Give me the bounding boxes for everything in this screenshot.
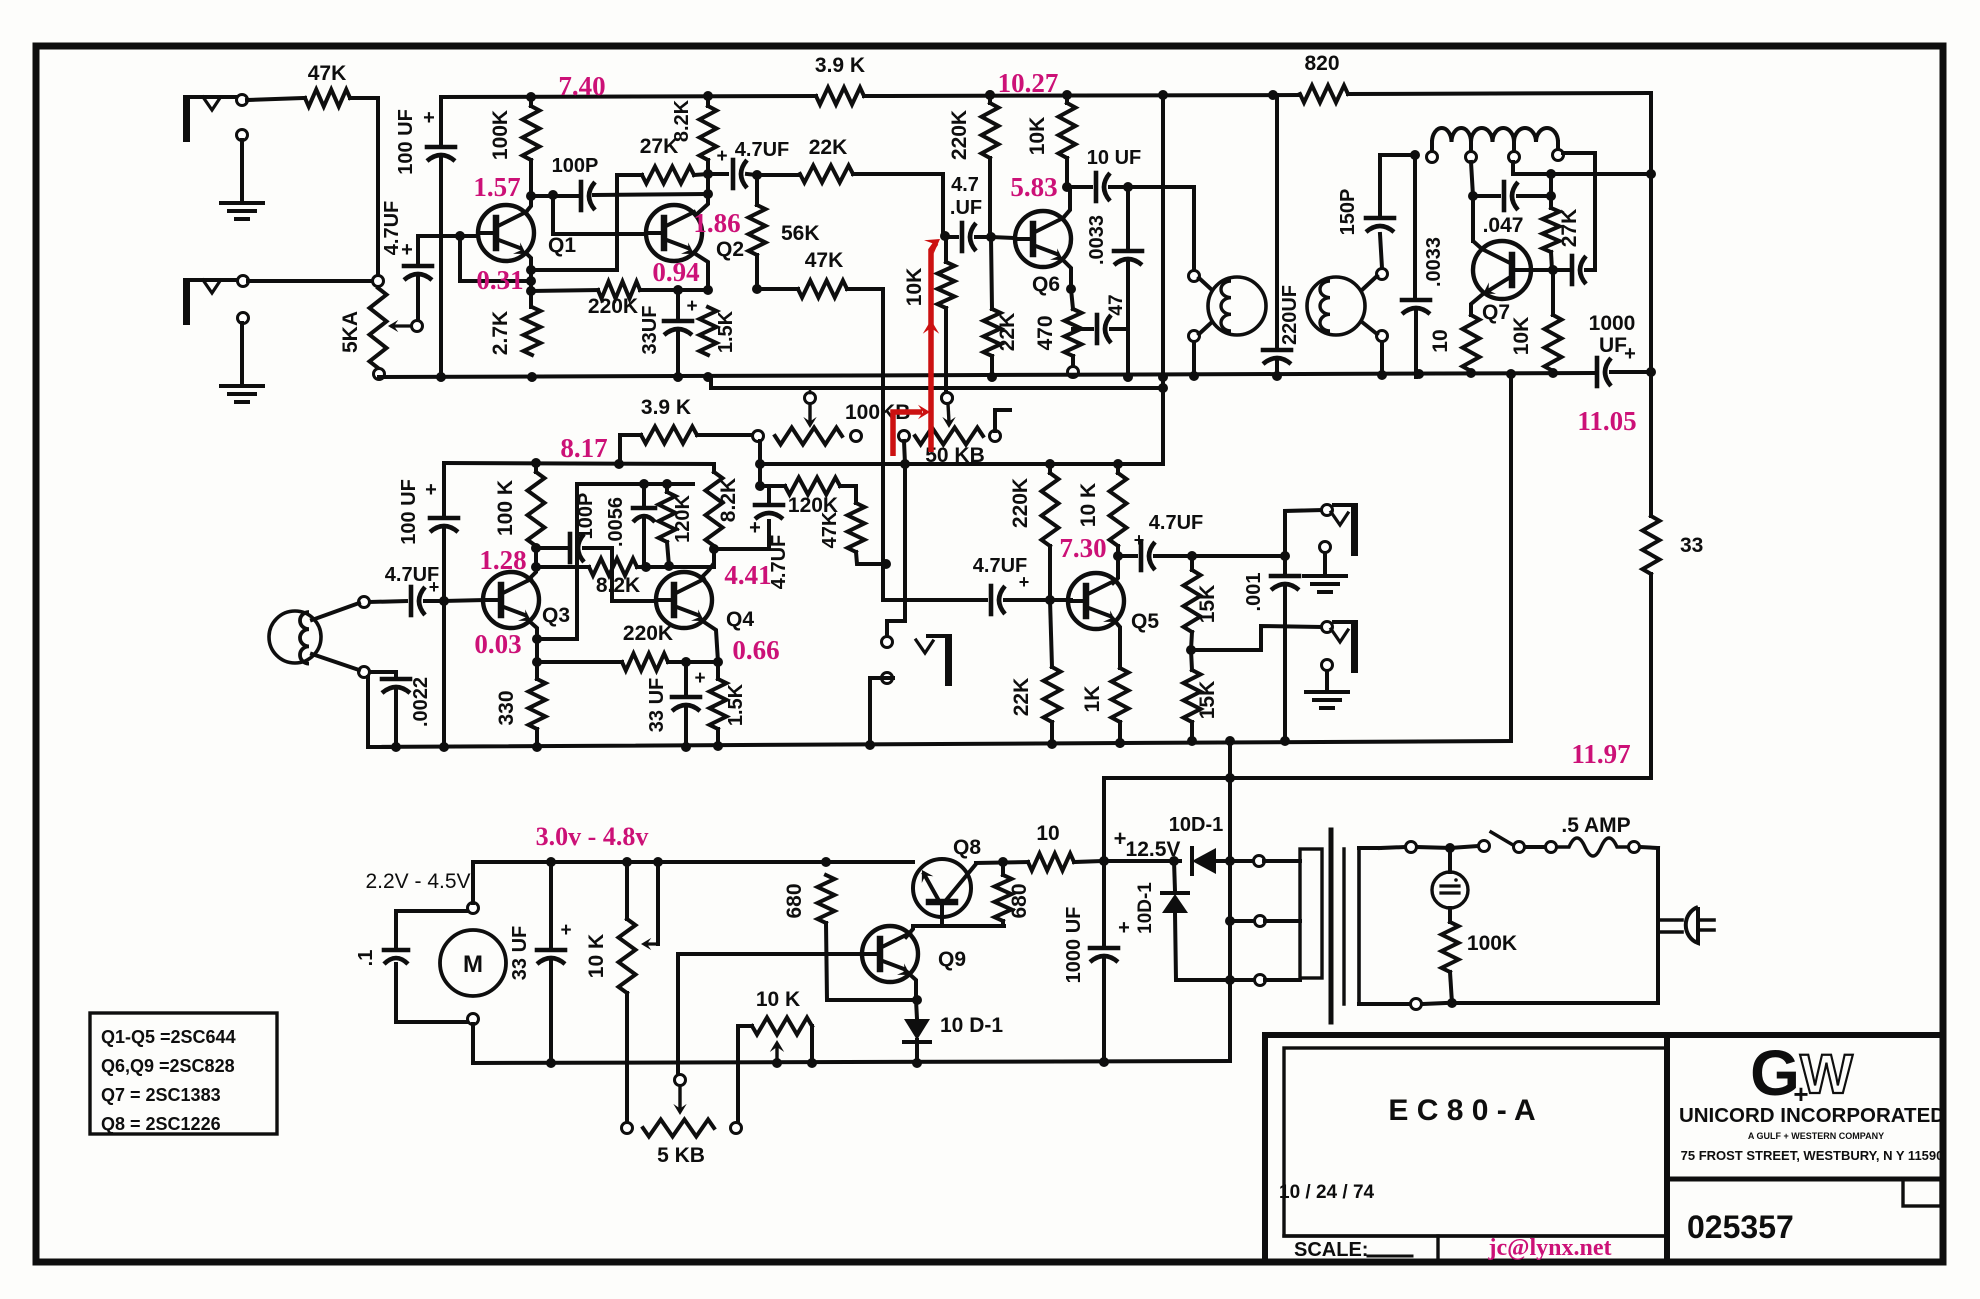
capacitor 4.7UF Q2 out <box>708 139 789 188</box>
svg-text:1.5K: 1.5K <box>725 683 747 726</box>
svg-text:10 K: 10 K <box>1077 483 1100 527</box>
svg-text:75 FROST STREET, WESTBURY, N Y: 75 FROST STREET, WESTBURY, N Y 11590 <box>1681 1148 1944 1163</box>
svg-text:.1: .1 <box>355 950 377 967</box>
svg-text:1.86: 1.86 <box>693 208 740 238</box>
svg-text:100 UF: 100 UF <box>398 479 420 545</box>
svg-text:E C 8 0 - A: E C 8 0 - A <box>1388 1094 1535 1127</box>
title subtitle <box>1748 1131 1884 1141</box>
svg-text:47K: 47K <box>819 511 841 548</box>
wire .001 node up to jack1 <box>1285 510 1321 556</box>
svg-text:Q5: Q5 <box>1131 610 1159 633</box>
svg-text:UNICORD INCORPORATED: UNICORD INCORPORATED <box>1679 1104 1945 1127</box>
resistor 100K power <box>1442 908 1518 1003</box>
wire mic sleeve down <box>368 677 396 747</box>
wire Q7 collector <box>1473 238 1482 249</box>
svg-text:10 / 24 / 74: 10 / 24 / 74 <box>1279 1182 1375 1203</box>
wire 27K feedback loop <box>531 175 642 270</box>
svg-text:Q4: Q4 <box>726 608 754 631</box>
svg-text:0.03: 0.03 <box>474 629 521 659</box>
svg-text:2.7K: 2.7K <box>489 311 512 355</box>
svg-text:150P: 150P <box>1337 189 1359 236</box>
transistor Q1 <box>478 196 576 261</box>
wire T2 tap4 right <box>1563 153 1595 270</box>
svg-text:470: 470 <box>1034 315 1057 350</box>
wire Q8 base row <box>913 924 1004 928</box>
GW logo <box>1750 1037 1853 1109</box>
resistor 470 <box>1034 289 1082 378</box>
svg-text:11.97: 11.97 <box>1571 739 1630 769</box>
svg-text:10 D-1: 10 D-1 <box>940 1014 1003 1037</box>
svg-text:15K: 15K <box>1196 681 1219 720</box>
label 0.66 <box>732 635 779 665</box>
svg-text:Q7: Q7 <box>1482 301 1510 324</box>
wire T2 tap2 down <box>1468 162 1478 241</box>
svg-text:Q3: Q3 <box>542 604 570 627</box>
feedback vertical x577 <box>537 484 577 639</box>
label 4.41 <box>724 560 771 590</box>
red arrow 1 <box>893 405 930 456</box>
svg-text:1.5K: 1.5K <box>715 310 737 353</box>
wire 100KB left to node <box>755 441 765 491</box>
pot 5KB <box>622 1120 742 1168</box>
wire Q7 emitter <box>1471 294 1483 315</box>
resistor 8.2K mid vert <box>706 464 741 546</box>
resistor 120K vert <box>659 484 695 566</box>
svg-text:4.7UF: 4.7UF <box>1149 512 1203 534</box>
svg-text:5.83: 5.83 <box>1010 172 1057 202</box>
svg-text:Q6: Q6 <box>1032 273 1060 296</box>
svg-text:10.27: 10.27 <box>998 68 1059 98</box>
rail3 8.17 <box>444 458 1163 469</box>
capacitor 10UF <box>1067 147 1141 201</box>
title notch <box>1903 1179 1941 1206</box>
wire Q9 emitter <box>906 971 917 1019</box>
capacitor 100UF ch1 <box>395 97 455 376</box>
wire 47K to corner <box>350 98 378 276</box>
capacitor 1000UF power <box>1063 861 1130 1067</box>
wire Q2 collector node <box>697 169 713 214</box>
wire Q3 base <box>444 600 483 601</box>
svg-text:10D-1: 10D-1 <box>1169 814 1223 836</box>
resistor 15K upper <box>1184 556 1220 655</box>
wire 5KB right up <box>738 1026 752 1122</box>
wire x1415 down <box>1413 157 1417 298</box>
label 1.57 <box>473 172 520 202</box>
wire 33 down to 11.97 <box>1104 574 1651 783</box>
label 7.30 <box>1059 533 1106 563</box>
wire 47K-Q5 base feed <box>883 598 986 600</box>
svg-text:10: 10 <box>1429 329 1452 352</box>
label 12.5V <box>1114 826 1181 861</box>
svg-text:A GULF + WESTERN COMPANY: A GULF + WESTERN COMPANY <box>1748 1131 1884 1141</box>
svg-text:7.30: 7.30 <box>1059 533 1106 563</box>
wire to Q1 base <box>418 231 478 241</box>
capacitor 4.7UF ch1 <box>381 201 432 320</box>
wire Q1 emitter <box>526 253 536 307</box>
wire T2 tap3 down <box>1511 162 1515 174</box>
scale strip <box>1284 1236 1667 1261</box>
wire x1163 vertical <box>1158 95 1168 464</box>
svg-text:Q8: Q8 <box>953 836 981 859</box>
svg-text:10: 10 <box>1036 822 1059 845</box>
wire Q8 collector to 10 <box>976 857 1028 867</box>
capacitor 150P <box>1337 155 1394 268</box>
svg-text:Q6,Q9 =2SC828: Q6,Q9 =2SC828 <box>101 1056 235 1076</box>
svg-text:4.41: 4.41 <box>724 560 771 590</box>
svg-text:15K: 15K <box>1196 585 1219 624</box>
wire Q3 collector <box>528 543 541 580</box>
svg-text:0.94: 0.94 <box>652 257 699 287</box>
transistor Q6 <box>1015 211 1071 296</box>
svg-text:33UF: 33UF <box>639 306 661 355</box>
capacitor 4.7UF Q5 in <box>973 555 1071 614</box>
resistor 3.9K top <box>815 54 865 105</box>
svg-text:22K: 22K <box>1010 678 1033 717</box>
capacitor .1 <box>355 950 408 967</box>
transistor Q4 <box>656 572 754 631</box>
svg-text:0.31: 0.31 <box>476 265 523 295</box>
svg-text:22K: 22K <box>809 136 848 159</box>
top supply rail 7.40 <box>441 90 1647 102</box>
resistor 10 Q7 <box>1429 315 1480 371</box>
capacitor .0033 out <box>1402 237 1445 377</box>
pot 10K wiper <box>641 862 658 950</box>
wire Q9 collector <box>906 926 913 937</box>
ground jack2 <box>1306 671 1348 708</box>
neon lamp <box>1432 848 1468 908</box>
transistor table text <box>101 1027 236 1134</box>
wire Q2 emitter <box>694 253 708 290</box>
label 1.86 <box>693 208 740 238</box>
svg-text:5 KB: 5 KB <box>657 1144 705 1167</box>
svg-text:Q9: Q9 <box>938 948 966 971</box>
capacitor 4.7UF Q4 <box>714 486 790 589</box>
transformer secondary terminals <box>1254 856 1266 986</box>
svg-text:5KA: 5KA <box>339 311 362 353</box>
resistor 10K mid (to 50KB) <box>903 231 955 404</box>
resistor 100K Q3 <box>494 463 545 546</box>
wire x1230 down <box>1225 741 1235 1060</box>
resistor 3.9K mid <box>620 396 752 464</box>
pot 5KA <box>339 276 387 380</box>
fuse .5AMP <box>1557 814 1658 856</box>
svg-text:.UF: .UF <box>950 197 982 219</box>
resistor 120K horiz <box>758 478 856 518</box>
resistor 47K mid <box>819 503 891 569</box>
ground below J1 <box>221 140 263 219</box>
wire 11.97 to 12.5V node <box>1102 778 1106 861</box>
svg-text:680: 680 <box>783 883 806 918</box>
resistor 22K <box>757 136 943 236</box>
wire sec terminal 2 <box>1230 919 1253 923</box>
resistor 56K <box>749 175 820 294</box>
ground below J2 <box>221 323 263 402</box>
svg-text:100K: 100K <box>1467 932 1517 955</box>
resistor 10K Q6 <box>1026 95 1076 192</box>
jack J2 (input 2) <box>183 276 249 326</box>
primary loop right <box>1447 848 1658 1008</box>
svg-text:+: + <box>1019 572 1030 592</box>
svg-text:10 K: 10 K <box>585 934 608 978</box>
transistor Q2 <box>646 205 744 261</box>
svg-text:11.05: 11.05 <box>1577 406 1636 436</box>
wire y556 to right <box>1187 551 1290 561</box>
svg-text:4.7UF: 4.7UF <box>768 535 790 589</box>
wire Q7 base <box>1512 265 1558 275</box>
resistor 680 right <box>995 862 1032 926</box>
transistor Q3 <box>483 572 570 628</box>
wire x1511 from y556 <box>1509 374 1513 741</box>
svg-text:0.66: 0.66 <box>732 635 779 665</box>
resistor 22K Q6 <box>984 237 1020 382</box>
svg-text:.0022: .0022 <box>410 677 432 727</box>
svg-text:120K: 120K <box>672 495 694 543</box>
svg-text:100 UF: 100 UF <box>395 109 417 175</box>
power switch <box>1491 832 1557 853</box>
resistor 680 left <box>783 875 835 923</box>
svg-text:4.7: 4.7 <box>951 174 979 196</box>
svg-text:7.40: 7.40 <box>558 71 605 101</box>
resistor 220K Q6 <box>948 90 999 237</box>
resistor 10K Q7 <box>1510 270 1562 371</box>
wire Q5 emitter <box>1113 619 1120 668</box>
svg-text:22K: 22K <box>996 313 1019 352</box>
wire Q5 collector <box>1113 556 1118 583</box>
svg-text:4.7UF: 4.7UF <box>381 201 403 255</box>
motor bypass loop <box>396 911 467 1022</box>
wire Q3 emitter <box>528 620 542 679</box>
resistor 220K Q5 <box>1009 464 1059 600</box>
svg-text:10 UF: 10 UF <box>1087 147 1141 169</box>
svg-text:1.57: 1.57 <box>473 172 520 202</box>
transistor table box <box>90 1013 277 1134</box>
svg-text:+: + <box>716 146 727 167</box>
capacitor .0056 <box>605 484 655 567</box>
svg-text:.5 AMP: .5 AMP <box>1561 814 1630 837</box>
label 5.83 <box>1010 172 1057 202</box>
label 8.17 <box>560 433 607 463</box>
svg-text:+: + <box>686 296 697 317</box>
svg-text:10K: 10K <box>903 268 926 307</box>
svg-text:Q1: Q1 <box>548 234 576 257</box>
svg-text:47: 47 <box>1106 294 1127 315</box>
transformer connector <box>1264 849 1322 980</box>
svg-text:+: + <box>694 668 705 689</box>
wire 15K junction to jack2 <box>1191 626 1320 650</box>
svg-text:.001: .001 <box>1243 573 1265 612</box>
resistor 33 <box>1643 516 1704 574</box>
svg-text:10 K: 10 K <box>756 988 800 1011</box>
svg-text:2.2V - 4.5V: 2.2V - 4.5V <box>365 870 470 893</box>
capacitor 33UF Q2 <box>639 290 698 376</box>
jack J1 (input 1) <box>183 95 248 143</box>
svg-text:3.9 K: 3.9 K <box>641 396 691 419</box>
svg-text:33 UF: 33 UF <box>646 678 668 732</box>
svg-text:680: 680 <box>1008 883 1031 918</box>
label 0.94 <box>652 257 699 287</box>
resistor 22K Q5 <box>1010 600 1061 749</box>
title block frame <box>1265 1035 1943 1262</box>
svg-text:+: + <box>1118 917 1130 939</box>
wire 10K to 5KB <box>625 993 629 1122</box>
svg-text:10K: 10K <box>1510 317 1533 356</box>
title EC80-A <box>1388 1094 1535 1127</box>
output jack 2 <box>1322 620 1359 673</box>
svg-text:1.28: 1.28 <box>479 545 526 575</box>
wire T1 primary bottom <box>1192 342 1196 377</box>
svg-text:Q2: Q2 <box>716 238 744 261</box>
svg-text:220K: 220K <box>948 110 971 160</box>
pot 10K power <box>585 862 636 993</box>
svg-text:47K: 47K <box>308 62 347 85</box>
svg-text:SCALE:: SCALE: <box>1294 1239 1368 1261</box>
wire tap3 across to right rail <box>1513 169 1656 179</box>
svg-text:220K: 220K <box>623 622 673 645</box>
capacitor 1000UF out <box>1589 312 1651 386</box>
resistor 27K Q7 <box>1543 174 1582 270</box>
svg-text:10D-1: 10D-1 <box>1135 882 1156 934</box>
svg-text:+: + <box>1134 530 1145 550</box>
resistor 15K lower <box>1184 650 1220 746</box>
wire J2 tip to pot <box>248 279 372 283</box>
svg-text:10K: 10K <box>1026 117 1049 156</box>
svg-text:+: + <box>429 577 440 597</box>
svg-text:+: + <box>425 479 437 501</box>
svg-text:+: + <box>749 517 761 539</box>
svg-text:220UF: 220UF <box>1279 285 1301 345</box>
wire Q4 collector <box>637 544 719 578</box>
svg-text:+: + <box>1624 343 1636 365</box>
svg-text:8.2K: 8.2K <box>671 99 693 142</box>
wire 50KB right up <box>995 410 1010 431</box>
svg-text:33 UF: 33 UF <box>509 926 531 980</box>
resistor 1.5K Q2 <box>700 307 738 382</box>
title number 025357 <box>1687 1209 1794 1245</box>
label 11.05 <box>1577 406 1636 436</box>
svg-text:1000: 1000 <box>1589 312 1636 335</box>
transformer T2 output winding <box>1380 128 1564 163</box>
transistor Q5 <box>1068 573 1159 633</box>
transformer primary winding <box>1359 848 1380 1004</box>
rail5 power ground <box>473 1061 1230 1063</box>
pot 5KA wiper arrow <box>388 320 423 332</box>
svg-text:.0056: .0056 <box>605 497 627 547</box>
wire Q6 collector <box>1063 187 1070 218</box>
wire jack J1 tip to 47K <box>247 98 305 100</box>
svg-text:100 K: 100 K <box>494 480 517 536</box>
title company <box>1679 1104 1945 1127</box>
resistor 220K Q1-Q2 <box>531 282 713 319</box>
svg-text:3.0v - 4.8v: 3.0v - 4.8v <box>536 822 649 851</box>
transistor Q7 <box>1473 241 1531 324</box>
resistor 47K input <box>305 90 350 107</box>
wire Q9 base <box>678 954 861 1074</box>
label 0.31 <box>476 265 523 295</box>
title address <box>1681 1148 1944 1163</box>
label 0.03 <box>474 629 521 659</box>
capacitor 100P Q3 <box>536 493 656 601</box>
capacitor .047 <box>1473 182 1556 237</box>
motor M <box>440 862 506 1063</box>
resistor 2.7K <box>489 307 541 382</box>
diode 10D-1 Q9 <box>904 1014 1003 1068</box>
capacitor 4.7UF to Q6 <box>945 174 1015 251</box>
capacitor .001 <box>1243 556 1299 746</box>
resistor 1.5K Q4 <box>710 662 748 751</box>
svg-text:025357: 025357 <box>1687 1209 1794 1245</box>
wire trimmer right <box>807 1026 817 1068</box>
diode 10D-1 horiz <box>1104 814 1258 874</box>
wire 11.05 down <box>1649 372 1653 516</box>
pot 50KB <box>899 428 1001 468</box>
resistor 220K mid <box>537 622 718 671</box>
capacitor 47 <box>1073 294 1128 343</box>
label 11.97 <box>1571 739 1630 769</box>
transformer T1 secondary <box>1307 269 1388 342</box>
capacitor .0022 <box>370 672 432 752</box>
transistor Q8 <box>913 836 981 926</box>
svg-text:820: 820 <box>1304 52 1339 75</box>
svg-text:4.7UF: 4.7UF <box>735 139 789 161</box>
svg-text:3.9 K: 3.9 K <box>815 54 865 77</box>
title inner box <box>1284 1048 1667 1236</box>
wire Q4 collector row <box>531 548 589 572</box>
rail4 mid ground <box>368 736 1511 748</box>
rail1 ground top section <box>379 367 1656 382</box>
capacitor .0033 Q6 <box>1086 187 1142 382</box>
svg-text:1K: 1K <box>1081 686 1104 713</box>
transistor Q9 <box>862 926 966 982</box>
capacitor Q7 base from tap4 <box>1558 256 1595 284</box>
svg-text:56K: 56K <box>781 222 820 245</box>
svg-text:8.2K: 8.2K <box>717 478 740 522</box>
resistor 8.2K Q2 <box>671 96 717 174</box>
primary loop bottom left <box>1359 999 1446 1010</box>
ground jack1 <box>1304 553 1346 592</box>
rail2 lower <box>711 377 1163 388</box>
label 2.2V-4.5V <box>365 870 470 893</box>
svg-text:.0033: .0033 <box>1423 237 1445 287</box>
capacitor 100P Q1 <box>526 155 705 210</box>
svg-text:W: W <box>1800 1042 1853 1105</box>
capacitor 220UF <box>1263 95 1301 377</box>
trimmer 10K arrow <box>770 1040 784 1068</box>
red arrow 2 <box>923 239 940 452</box>
svg-text:Q7 = 2SC1383: Q7 = 2SC1383 <box>101 1085 221 1105</box>
wire Q6 emitter <box>1063 260 1076 294</box>
resistor 10K Q5 <box>1077 464 1127 561</box>
svg-text:+: + <box>401 239 413 261</box>
label 7.40 <box>558 71 605 101</box>
resistor 8.2K Q3-Q4 <box>589 559 674 598</box>
svg-text:.0033: .0033 <box>1086 215 1108 265</box>
svg-text:220K: 220K <box>1009 478 1032 528</box>
title date <box>1279 1182 1375 1203</box>
pot 100KB wiper <box>803 388 816 428</box>
title divider <box>1667 1177 1941 1182</box>
transformer core <box>1331 830 1344 1022</box>
pot 5KB wiper <box>673 1075 686 1116</box>
wire right rail down <box>1649 93 1653 372</box>
pot 50KB wiper <box>942 393 956 429</box>
capacitor 4.7UF mic <box>370 564 449 615</box>
output jack 1 <box>1320 503 1359 556</box>
microphone input <box>269 597 370 678</box>
label 3.0v-4.8v <box>536 822 649 851</box>
svg-text:33: 33 <box>1680 534 1703 557</box>
capacitor 4.7UF Q5 out <box>1118 512 1203 570</box>
svg-text:47K: 47K <box>805 249 844 272</box>
